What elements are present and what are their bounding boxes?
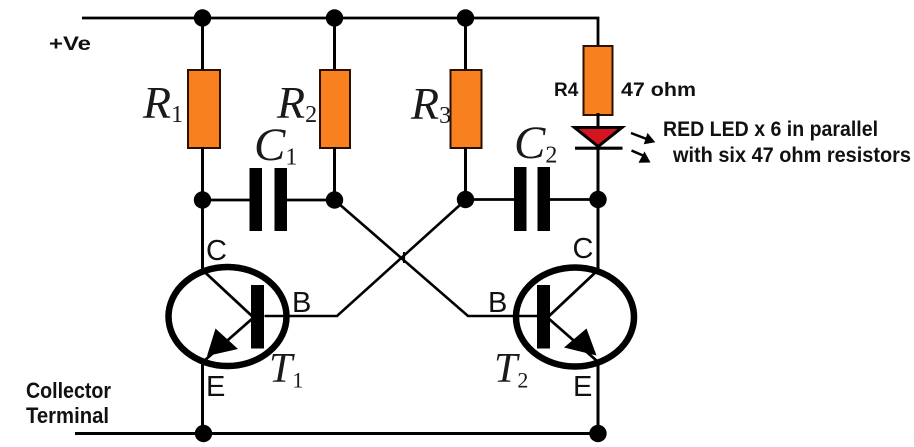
- node top junction C (R3): [457, 9, 474, 26]
- wire node to C1 left plate: [203, 199, 251, 202]
- wire node to C2 left plate: [466, 198, 515, 201]
- wire node to T2 collector: [597, 200, 600, 273]
- wire C1 right plate to node: [287, 199, 335, 202]
- resistor R2: [320, 70, 350, 148]
- LED light arrow 1: [631, 133, 655, 144]
- node bottom junction T1 emitter: [195, 425, 212, 442]
- node top junction A (R1): [194, 9, 211, 26]
- wire C2 right plate to node: [550, 198, 598, 201]
- svg-text:B: B: [292, 287, 311, 319]
- resistor R4: [584, 46, 613, 115]
- svg-text:R4: R4: [554, 80, 579, 101]
- LED cathode bar: [575, 147, 623, 150]
- svg-text:47 ohm: 47 ohm: [621, 80, 696, 101]
- wire R4 to LED anode: [597, 113, 600, 128]
- svg-text:Collector: Collector: [26, 378, 111, 403]
- svg-text:E: E: [206, 371, 225, 403]
- wire T2 emitter to bottom rail: [597, 360, 600, 434]
- node mid junction below R3: [457, 191, 474, 208]
- wire LED cathode to node: [597, 148, 600, 200]
- svg-text:with six 47 ohm resistors: with six 47 ohm resistors: [672, 144, 911, 167]
- capacitor C1: [250, 168, 263, 231]
- transistor T2: [516, 268, 634, 367]
- capacitor C2: [514, 167, 527, 231]
- wire cross-couple C1 node to T2 base: [335, 200, 538, 316]
- wire R3 to node: [464, 147, 467, 200]
- svg-text:C: C: [573, 233, 594, 265]
- svg-text:E: E: [573, 371, 592, 403]
- svg-text:+Ve: +Ve: [49, 34, 91, 55]
- svg-text:C: C: [206, 235, 227, 267]
- wire bottom collector-terminal rail: [75, 432, 598, 435]
- svg-text:RED LED x 6 in parallel: RED LED x 6 in parallel: [663, 118, 878, 141]
- node mid junction below R2: [326, 191, 343, 208]
- resistor R1: [188, 70, 220, 148]
- wire rail to R2: [333, 18, 336, 71]
- wire R2 to node: [333, 147, 336, 201]
- svg-text:Terminal: Terminal: [26, 403, 109, 428]
- LED light arrow 2: [632, 151, 651, 163]
- wire T1 emitter to bottom rail: [201, 360, 204, 434]
- wire crossing tick: [403, 252, 405, 263]
- LED D1: [575, 128, 623, 147]
- wire +Ve top rail: [82, 18, 598, 46]
- node top junction B (R2): [326, 9, 343, 26]
- node bottom junction T2 emitter: [589, 425, 606, 442]
- svg-text:B: B: [488, 287, 507, 319]
- node mid junction LED cathode: [589, 191, 606, 208]
- transistor T1: [169, 267, 287, 366]
- wire rail to R3: [464, 18, 467, 71]
- wire cross-couple R3 node to T1 base: [265, 200, 466, 316]
- resistor R3: [451, 70, 482, 148]
- wire R1 to node: [201, 147, 204, 201]
- wire rail to R1: [201, 18, 204, 71]
- node mid junction below R1: [194, 191, 211, 208]
- wire node to T1 collector: [201, 200, 204, 272]
